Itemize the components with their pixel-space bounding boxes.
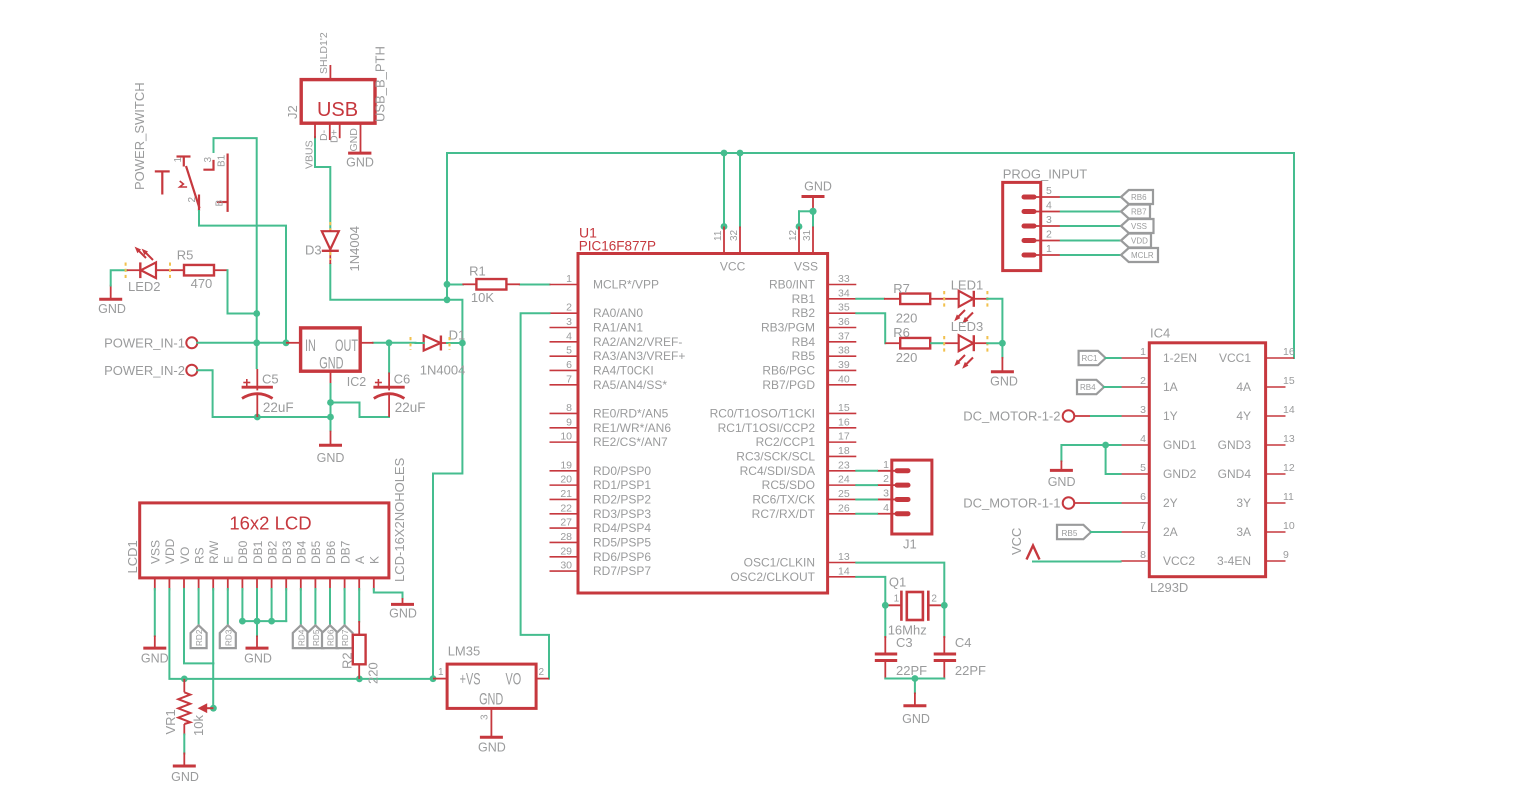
svg-text:RD6: RD6 <box>327 629 336 646</box>
svg-text:RD6/PSP6: RD6/PSP6 <box>593 550 651 564</box>
svg-text:5: 5 <box>566 345 572 357</box>
svg-text:IC4: IC4 <box>1150 326 1170 341</box>
wire LCD VO elbow <box>184 589 213 663</box>
svg-text:OUT: OUT <box>335 336 358 355</box>
U1 pin 12 VSS <box>788 227 799 254</box>
svg-text:VDD: VDD <box>1131 237 1148 246</box>
net flag RD6 <box>322 625 338 648</box>
svg-text:RA0/AN0: RA0/AN0 <box>593 306 643 320</box>
LCD pin DB6 <box>324 540 338 590</box>
svg-text:29: 29 <box>560 545 572 557</box>
svg-text:RD4: RD4 <box>297 629 306 646</box>
amber mark LED3 right <box>986 336 988 352</box>
LCD pin VSS <box>149 540 163 591</box>
U1 pin 27 RD4/PSP4 <box>550 517 652 536</box>
LCD pin DB7 <box>338 540 352 590</box>
svg-text:R2: R2 <box>340 652 355 669</box>
capacitor C5 22uF <box>242 369 294 417</box>
svg-text:22: 22 <box>560 502 572 514</box>
svg-text:RB3/PGM: RB3/PGM <box>761 320 815 334</box>
svg-text:GND: GND <box>319 353 343 372</box>
net flag RD4 <box>293 625 309 648</box>
svg-text:11: 11 <box>713 230 724 241</box>
svg-text:1: 1 <box>894 594 900 605</box>
wire +5V top rail <box>447 153 1294 358</box>
wire U1 RC6 to J1 pin 3 <box>856 498 877 500</box>
LCD pin DB1 <box>251 540 265 590</box>
svg-text:15: 15 <box>838 402 850 414</box>
switch S1 actuator <box>155 171 187 194</box>
USB D+ pin <box>329 123 341 143</box>
wire MCLR feed from rail <box>433 153 462 679</box>
wire U1 RC5 to J1 pin 2 <box>856 484 877 486</box>
svg-text:10: 10 <box>560 431 572 443</box>
svg-text:RC6/TX/CK: RC6/TX/CK <box>752 492 815 506</box>
junction D3 net tap <box>444 296 451 303</box>
svg-text:1-2EN: 1-2EN <box>1163 351 1197 365</box>
svg-text:12: 12 <box>1283 462 1295 474</box>
wire PROG to VSS flag <box>1061 225 1121 227</box>
svg-text:33: 33 <box>838 273 850 285</box>
svg-text:22uF: 22uF <box>395 400 426 415</box>
svg-text:K: K <box>368 556 382 564</box>
svg-text:RE0/RD*/AN5: RE0/RD*/AN5 <box>593 406 669 420</box>
svg-text:220: 220 <box>365 662 380 684</box>
amber mark LED3 left <box>943 336 945 352</box>
svg-text:RC7/RX/DT: RC7/RX/DT <box>752 507 816 521</box>
svg-text:RB5: RB5 <box>1062 529 1078 538</box>
U1 pin 29 RD6/PSP6 <box>550 545 652 564</box>
svg-text:RD5/PSP5: RD5/PSP5 <box>593 535 651 549</box>
svg-text:RS: RS <box>192 547 206 564</box>
net flag VDD <box>1121 234 1151 248</box>
ground GND under DB pins <box>244 636 272 666</box>
resistor R5 470 <box>177 248 228 292</box>
wire C6 bottom link <box>331 403 390 418</box>
svg-text:PROG_INPUT: PROG_INPUT <box>1003 167 1088 182</box>
ground GND under IC2 <box>317 431 345 465</box>
svg-text:GND: GND <box>244 652 272 666</box>
wire LED3 to gnd <box>987 342 1002 344</box>
svg-text:C5: C5 <box>262 372 279 387</box>
svg-text:RC4/SDI/SDA: RC4/SDI/SDA <box>740 464 815 478</box>
junction on rail at VDD pin 32 column <box>737 150 744 157</box>
junction R5 tap <box>253 310 260 317</box>
svg-text:D+: D+ <box>329 129 341 143</box>
wire LCD DB7 to flag <box>344 589 346 625</box>
svg-text:4: 4 <box>883 502 889 514</box>
U1 pin 4 RA2/AN2/VREF- <box>550 330 683 349</box>
U1 pin 5 RA3/AN3/VREF+ <box>550 345 686 364</box>
U1 pin 3 RA1/AN1 <box>550 316 644 335</box>
svg-text:4Y: 4Y <box>1236 409 1251 423</box>
svg-text:23: 23 <box>838 459 850 471</box>
LCD pin DB5 <box>309 540 323 590</box>
wire RB1 to R7 <box>856 298 884 300</box>
wire VDD pin 32 drop <box>739 153 741 227</box>
svg-text:GND2: GND2 <box>1163 467 1197 481</box>
IC2 IN pin <box>286 342 301 344</box>
U1 pin 18 RC3/SCK/SCL <box>736 445 856 464</box>
U1 pin 9 RE1/WR*/AN6 <box>550 416 672 435</box>
svg-text:1A: 1A <box>1163 380 1178 394</box>
svg-text:GND: GND <box>804 180 832 194</box>
svg-text:OSC1/CLKIN: OSC1/CLKIN <box>744 556 815 570</box>
svg-text:B: B <box>215 200 226 207</box>
svg-text:32: 32 <box>729 229 740 241</box>
svg-text:LED1: LED1 <box>951 277 984 292</box>
wire VDD pin 11 drop <box>723 153 725 227</box>
svg-text:VR1: VR1 <box>163 709 178 734</box>
svg-text:J2: J2 <box>285 105 300 119</box>
svg-text:RC1/T1OSI/CCP2: RC1/T1OSI/CCP2 <box>718 421 816 435</box>
svg-text:RA2/AN2/VREF-: RA2/AN2/VREF- <box>593 335 682 349</box>
USB connector J2 box <box>301 80 375 124</box>
svg-text:RD7/PSP7: RD7/PSP7 <box>593 564 651 578</box>
net flag RC1 <box>1079 351 1106 365</box>
wire LED gnd drop <box>1001 343 1003 357</box>
svg-text:4A: 4A <box>1236 380 1251 394</box>
wire U1 RC4 to J1 pin 1 <box>856 470 877 472</box>
svg-text:GND1: GND1 <box>1163 438 1197 452</box>
regulator IC2 box <box>301 328 367 389</box>
U1 pin 40 RB7/PGD <box>762 373 856 392</box>
svg-text:6: 6 <box>566 359 572 371</box>
wire LED2 cathode to GND <box>111 270 127 285</box>
wire switch pin3 to C5/R5 net <box>214 138 257 368</box>
svg-text:1N4004: 1N4004 <box>420 363 466 378</box>
svg-text:36: 36 <box>838 316 850 328</box>
LCD pin K <box>368 556 382 591</box>
svg-text:R6: R6 <box>893 325 910 340</box>
svg-text:1: 1 <box>883 459 889 471</box>
svg-text:31: 31 <box>802 229 813 241</box>
ground GND under LCD VSS <box>141 636 169 666</box>
wire PROG to RB6 flag <box>1061 196 1121 198</box>
amber mark LED2 right <box>169 263 171 279</box>
switch S1 B bar <box>215 200 229 207</box>
ground GND under LEDs <box>990 357 1018 389</box>
svg-text:RC2/CCP1: RC2/CCP1 <box>756 435 816 449</box>
svg-text:GND: GND <box>346 156 374 170</box>
U1 pin 25 RC6/TX/CK <box>752 488 856 507</box>
junction at U1 pin 11 <box>721 223 728 230</box>
svg-text:2: 2 <box>1046 229 1052 241</box>
U1 pin 26 RC7/RX/DT <box>752 502 857 521</box>
connector POWER_IN-1 <box>104 335 197 350</box>
USB GND pin <box>348 123 361 153</box>
switch S1 pin1 <box>173 157 191 167</box>
junction rail LM35 <box>430 675 437 682</box>
svg-text:C6: C6 <box>394 372 411 387</box>
svg-text:POWER_IN-2: POWER_IN-2 <box>104 363 185 378</box>
wire crystal pin2 to C4 <box>943 605 945 637</box>
svg-text:4: 4 <box>1140 433 1146 445</box>
net flag RB5 <box>1057 525 1091 539</box>
svg-text:4: 4 <box>566 330 572 342</box>
U1 pin 7 RA5/AN4/SS* <box>550 373 668 392</box>
junction IC4 gnd <box>1102 442 1109 449</box>
U1 pin 8 RE0/RD*/AN5 <box>550 402 669 421</box>
junction LED gnd <box>999 340 1006 347</box>
svg-text:RC3/SCK/SCL: RC3/SCK/SCL <box>736 449 815 463</box>
ground GND under LCD K <box>389 598 417 621</box>
svg-text:GND: GND <box>1048 475 1076 489</box>
LED LED3 <box>951 319 988 369</box>
svg-text:C3: C3 <box>896 635 913 650</box>
svg-text:1N4004: 1N4004 <box>347 226 362 272</box>
diode D3 1N4004 <box>305 226 362 272</box>
svg-text:DB1: DB1 <box>251 540 265 564</box>
amber mark D1 left <box>410 337 412 350</box>
U1 pin 20 RD1/PSP1 <box>550 474 652 493</box>
connector POWER_IN-2 <box>104 363 197 378</box>
svg-text:RD0/PSP0: RD0/PSP0 <box>593 464 651 478</box>
IC2 GND pin <box>330 371 332 385</box>
svg-text:R1: R1 <box>469 264 486 279</box>
LCD pin RS <box>192 547 206 590</box>
svg-text:RB4: RB4 <box>1080 383 1096 392</box>
svg-text:8: 8 <box>1140 549 1146 561</box>
resistor R1 10K <box>462 264 520 306</box>
wire crystal gnd bus <box>885 679 944 694</box>
svg-text:RB1: RB1 <box>792 292 816 306</box>
svg-text:RC1: RC1 <box>1082 354 1099 363</box>
svg-text:RB6: RB6 <box>1131 193 1147 202</box>
net flag RB7 <box>1121 205 1150 219</box>
svg-text:220: 220 <box>896 311 918 326</box>
svg-text:MCLR: MCLR <box>1131 251 1154 260</box>
svg-text:15: 15 <box>1283 375 1295 387</box>
U1 pin 14 OSC2/CLKOUT <box>730 565 856 584</box>
svg-text:3Y: 3Y <box>1236 496 1251 510</box>
junction D1 cathode <box>459 340 466 347</box>
U1 pin 32 VDD <box>729 227 740 254</box>
svg-text:RD5: RD5 <box>312 629 321 646</box>
resistor R6 220 <box>885 325 959 365</box>
svg-text:GND: GND <box>389 607 417 621</box>
wire LCD DB4 to flag <box>300 589 302 625</box>
svg-text:25: 25 <box>838 488 850 500</box>
amber mark D1 right <box>449 337 451 350</box>
svg-text:R5: R5 <box>177 248 194 263</box>
svg-text:LED2: LED2 <box>128 279 161 294</box>
resistor R2 220 <box>340 621 381 684</box>
SHLD1'2 pin label <box>318 32 330 74</box>
amber mark D3 bottom <box>329 252 331 260</box>
junction crystal pin2 <box>941 602 948 609</box>
junction IC2 gnd b <box>327 414 334 421</box>
switch S1 B1 bar <box>217 154 228 212</box>
connector J1 <box>877 459 932 552</box>
svg-text:LM35: LM35 <box>448 644 481 659</box>
switch S1 lever <box>186 166 200 208</box>
svg-text:MCLR*/VPP: MCLR*/VPP <box>593 278 659 292</box>
U1 pin 38 RB5 <box>792 345 857 364</box>
svg-text:DB6: DB6 <box>324 540 338 564</box>
net flag RD2 <box>191 625 207 648</box>
crystal Q1 16Mhz <box>885 575 944 638</box>
svg-text:9: 9 <box>566 416 572 428</box>
svg-text:RA1/AN1: RA1/AN1 <box>593 320 643 334</box>
wire switch pin2 to IC2 IN <box>199 211 286 343</box>
svg-text:16x2 LCD: 16x2 LCD <box>229 513 311 534</box>
wire LCD DB1 down <box>256 589 258 621</box>
LM35 pin2 <box>536 667 549 679</box>
svg-text:DB5: DB5 <box>309 540 323 564</box>
svg-text:6: 6 <box>1140 491 1146 503</box>
U1 pin 37 RB4 <box>792 330 857 349</box>
svg-text:10k: 10k <box>191 715 206 736</box>
wire IC2 OUT to D1 <box>373 342 416 344</box>
svg-text:RB0/INT: RB0/INT <box>769 278 816 292</box>
svg-text:5: 5 <box>1046 185 1052 197</box>
junction R1 tap <box>444 281 451 288</box>
svg-text:8: 8 <box>566 402 572 414</box>
ground GND under LED2 <box>98 285 126 317</box>
wire LCD E to flag <box>227 589 229 625</box>
net flag MCLR <box>1121 248 1158 262</box>
LCD pin DB0 <box>236 540 250 590</box>
U1 pin 31 VSS <box>802 227 813 254</box>
svg-text:LCD-16X2NOHOLES: LCD-16X2NOHOLES <box>392 457 407 582</box>
wire LED1 to gnd column <box>987 299 1002 343</box>
U1 pin 35 RB2 <box>792 302 857 321</box>
U1 pin 30 RD7/PSP7 <box>550 560 652 579</box>
svg-text:17: 17 <box>838 431 850 443</box>
amber mark LED1 right <box>986 291 988 307</box>
wire IC4 GND1 GND2 <box>1061 445 1120 474</box>
capacitor C4 22PF <box>934 635 986 679</box>
svg-text:22uF: 22uF <box>263 400 294 415</box>
wire OSC2 to crystal <box>856 577 885 605</box>
svg-text:RD1/PSP1: RD1/PSP1 <box>593 478 651 492</box>
svg-text:9: 9 <box>1283 549 1289 561</box>
svg-text:DB4: DB4 <box>295 540 309 564</box>
IC LM35 box <box>447 644 536 709</box>
svg-text:2: 2 <box>539 667 545 678</box>
svg-text:3: 3 <box>566 316 572 328</box>
connector DC_MOTOR-1-1 <box>963 496 1091 511</box>
svg-text:14: 14 <box>1283 404 1295 416</box>
U1 pin 17 RC2/CCP1 <box>756 431 857 450</box>
wire RB4 to IC4 pin2 <box>1104 386 1121 388</box>
wire IC2 GND down <box>330 384 332 431</box>
wire RC1 to IC4 pin1 <box>1106 357 1121 359</box>
USB SHLD pin <box>329 65 331 80</box>
svg-text:J1: J1 <box>903 537 917 552</box>
svg-text:30: 30 <box>560 560 572 572</box>
svg-text:DC_MOTOR-1-2: DC_MOTOR-1-2 <box>963 409 1060 424</box>
svg-text:Q1: Q1 <box>889 575 906 590</box>
U1 pin 21 RD2/PSP2 <box>550 488 652 507</box>
svg-text:LED3: LED3 <box>951 319 984 334</box>
svg-text:3A: 3A <box>1236 525 1251 539</box>
U1 pin 19 RD0/PSP0 <box>550 459 652 478</box>
svg-text:26: 26 <box>838 502 850 514</box>
ground GND under VR1 <box>171 753 199 785</box>
junction DB1 <box>254 618 261 625</box>
net flag RD7 <box>337 625 353 648</box>
wire PROG to MCLR flag <box>1061 254 1121 256</box>
svg-text:RC5/SDO: RC5/SDO <box>762 478 815 492</box>
U1 pin 6 RA4/T0CKI <box>550 359 654 378</box>
LCD pin VO <box>178 547 192 591</box>
net flag VSS <box>1121 219 1154 233</box>
svg-text:A: A <box>353 556 367 564</box>
svg-text:40: 40 <box>838 373 850 385</box>
svg-text:RD2/PSP2: RD2/PSP2 <box>593 492 651 506</box>
wire crystal pin1 to C3 <box>884 605 886 637</box>
svg-text:RA4/T0CKI: RA4/T0CKI <box>593 363 654 377</box>
wire LCD DB0 down <box>241 589 243 621</box>
svg-text:7: 7 <box>566 373 572 385</box>
svg-text:GND: GND <box>902 712 930 726</box>
wire DC_MOTOR-1-1 to IC4 pin6 <box>1091 502 1121 504</box>
junction VR1 wiper <box>210 705 217 712</box>
resistor R7 220 <box>884 281 959 326</box>
LCD pin DB2 <box>265 540 279 590</box>
svg-text:RE2/CS*/AN7: RE2/CS*/AN7 <box>593 435 668 449</box>
svg-text:1: 1 <box>1140 346 1146 358</box>
svg-text:R/W: R/W <box>207 540 221 564</box>
junction DB2 <box>268 618 275 625</box>
svg-text:VDD: VDD <box>163 538 177 564</box>
wire LCD VSS to gnd <box>154 589 156 636</box>
wire LCD K to gnd <box>374 589 403 599</box>
svg-text:RA3/AN3/VREF+: RA3/AN3/VREF+ <box>593 349 685 363</box>
junction on rail at VDD pin 11 column <box>721 150 728 157</box>
svg-text:10K: 10K <box>471 290 494 305</box>
USB D- pin <box>318 123 330 141</box>
wire VR1 to gnd <box>183 735 185 754</box>
svg-text:IN: IN <box>305 336 316 355</box>
svg-text:USB: USB <box>317 99 358 121</box>
wire LCD DB2 down <box>271 589 273 621</box>
U1 pin 16 RC1/T1OSI/CCP2 <box>718 416 857 435</box>
svg-text:20: 20 <box>560 474 572 486</box>
svg-text:E: E <box>222 556 236 564</box>
LCD pin DB3 <box>280 540 294 590</box>
svg-text:GND: GND <box>98 302 126 316</box>
ground GND under USB <box>346 153 374 169</box>
wire DB gnd bus <box>242 621 286 636</box>
svg-text:22PF: 22PF <box>896 663 927 678</box>
LCD LCD1 16x2 box <box>140 503 389 578</box>
junction rail R2 <box>356 676 363 683</box>
svg-text:16: 16 <box>838 416 850 428</box>
diode D1 1N4004 <box>416 328 466 378</box>
svg-text:VO: VO <box>178 547 192 564</box>
svg-text:1Y: 1Y <box>1163 409 1178 423</box>
svg-text:2: 2 <box>566 302 572 314</box>
svg-text:13: 13 <box>1283 433 1295 445</box>
svg-text:RB2: RB2 <box>792 306 816 320</box>
svg-text:2: 2 <box>931 594 937 605</box>
svg-text:RB7: RB7 <box>1131 208 1147 217</box>
ground GND above U1 VSS <box>802 180 832 212</box>
ground GND under crystal <box>902 693 930 727</box>
wire U1 RA0 to LM35 VO <box>521 313 550 678</box>
svg-text:28: 28 <box>560 531 572 543</box>
amber mark D3 top <box>329 222 331 230</box>
svg-text:DB2: DB2 <box>265 540 279 564</box>
junction IC2 IN node <box>283 339 290 346</box>
junction POWER_IN-1 tap <box>253 339 260 346</box>
wire POWER_IN-1 to IC2 IN <box>197 342 286 344</box>
svg-text:3-4EN: 3-4EN <box>1217 554 1251 568</box>
ground GND under LM35 <box>478 737 506 754</box>
